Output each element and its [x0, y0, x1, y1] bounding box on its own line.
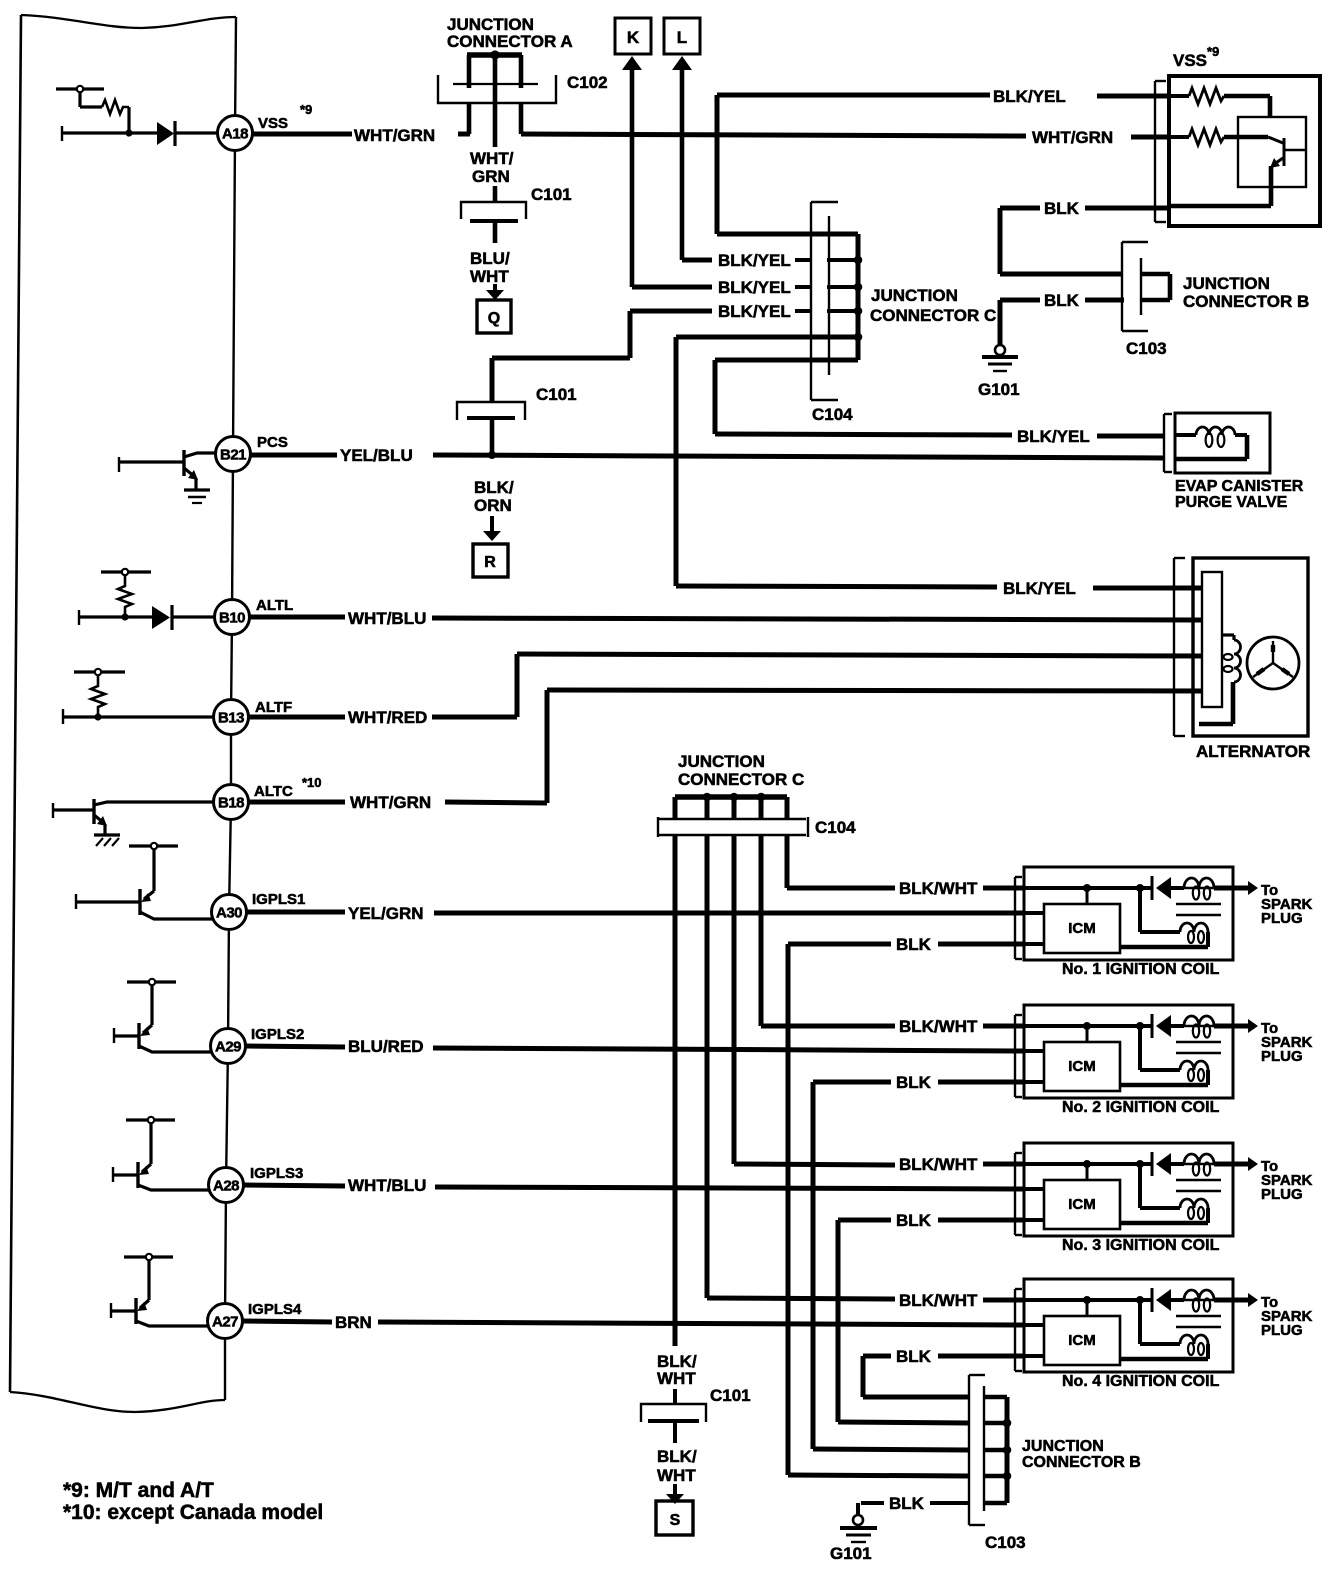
arrow To Spark Plug (No.4) [1233, 1293, 1313, 1339]
VSS label *9 [1173, 44, 1219, 70]
svg-text:G101: G101 [978, 380, 1020, 399]
svg-text:YEL/BLU: YEL/BLU [340, 446, 413, 465]
No.1 coil ground wire stub [1024, 942, 1044, 946]
svg-text:BLK: BLK [896, 935, 932, 954]
wire from C104 pin 5 to No.1 coil [787, 797, 895, 888]
svg-text:BRN: BRN [335, 1313, 372, 1332]
svg-text:WHT: WHT [470, 267, 509, 286]
svg-text:S: S [670, 1512, 681, 1529]
ECM connector pin A28 [209, 1168, 244, 1203]
junction connector C (upper) bracket [811, 202, 838, 400]
wire stub below C101 [493, 223, 498, 243]
ECM connector pin A29 [211, 1029, 246, 1064]
B10 internal pull-up resistor [101, 569, 151, 621]
svg-text:No. 4 IGNITION COIL: No. 4 IGNITION COIL [1062, 1373, 1220, 1390]
No.3 coil internal diode [1152, 1152, 1184, 1176]
junction connector B (lower) busbar [984, 1397, 1011, 1503]
junction connector C (lower) label [678, 752, 804, 789]
wire BLK/YEL from junction connector C to VSS [717, 87, 1170, 234]
svg-text:R: R [484, 554, 496, 571]
svg-text:G101: G101 [830, 1544, 872, 1563]
svg-text:BLK/: BLK/ [657, 1447, 697, 1466]
No.2 ignition coil connector bracket [1015, 1015, 1022, 1097]
svg-text:WHT/RED: WHT/RED [348, 708, 427, 727]
ECM boundary (torn box outline) [10, 15, 236, 1412]
svg-text:BLU/RED: BLU/RED [348, 1037, 424, 1056]
ground G101 (lower) [840, 1515, 877, 1542]
svg-text:BLK: BLK [896, 1347, 932, 1366]
svg-text:C104: C104 [812, 405, 853, 424]
svg-text:WHT/BLU: WHT/BLU [348, 1176, 426, 1195]
svg-text:ICM: ICM [1068, 1332, 1096, 1349]
svg-text:ALTC: ALTC [254, 783, 293, 800]
svg-text:WHT/GRN: WHT/GRN [354, 126, 435, 145]
svg-text:JUNCTION: JUNCTION [1022, 1438, 1104, 1455]
wire BRN from A27 to No.4 coil [242, 1313, 1024, 1332]
ECM connector pin B10 [215, 600, 250, 635]
EVAP purge valve connector bracket [1164, 414, 1172, 472]
svg-text:IGPLS3: IGPLS3 [250, 1165, 303, 1182]
ECM connector pin B21 [216, 437, 251, 472]
wire from C104 pin 2 to No.4 coil [707, 797, 895, 1299]
A30 internal transistor with pull-up (A30 driver) [76, 843, 222, 919]
svg-text:No. 3 IGNITION COIL: No. 3 IGNITION COIL [1062, 1237, 1220, 1254]
wire WHT/GRN from C102 to VSS [521, 128, 1170, 147]
ECM connector pin A18 [218, 116, 253, 151]
svg-text:BLK/WHT: BLK/WHT [899, 879, 978, 898]
ECM connector pin B13 [214, 700, 249, 735]
No.2 coil internal supply wire [1024, 1022, 1180, 1070]
wire from C104 pin 4 to No.2 coil [761, 797, 895, 1026]
wire BLK from No.4 coil to junction connector B [863, 1347, 1024, 1397]
svg-text:ICM: ICM [1068, 1196, 1096, 1213]
arrow into S [666, 1484, 684, 1504]
A27 internal transistor with pull-up (A27 driver) [111, 1254, 222, 1326]
svg-text:VSS: VSS [1173, 51, 1207, 70]
svg-text:*9: *9 [1207, 44, 1219, 59]
svg-text:BLK/WHT: BLK/WHT [899, 1155, 978, 1174]
junction connector A label [447, 15, 573, 51]
No.3 coil ICM module [1044, 1180, 1120, 1229]
alternator connector bracket [1174, 558, 1185, 736]
wire WHT/RED from B13 to alternator [248, 654, 1203, 727]
svg-text:C104: C104 [815, 818, 856, 837]
ECM pin bus wire [225, 17, 236, 1400]
wire WHT/BLU from B10 to alternator [249, 609, 1203, 628]
wire label BLK/WHT (No.3 coil) [899, 1155, 1024, 1174]
VSS internal resistor R1 [1169, 88, 1270, 118]
svg-text:JUNCTION: JUNCTION [678, 752, 765, 771]
No.4 ignition coil box [1024, 1279, 1233, 1372]
A28 internal transistor with pull-up (A28 driver) [113, 1117, 222, 1190]
svg-text:BLK/YEL: BLK/YEL [718, 251, 791, 270]
wire label BLK/WHT (above C101) [657, 1352, 697, 1388]
junction connector C pin 5 wire (to alternator) [676, 333, 862, 342]
svg-text:B18: B18 [218, 795, 244, 812]
wire stub into bottom C101 [673, 1389, 677, 1404]
svg-text:WHT/: WHT/ [470, 149, 514, 168]
arrow To Spark Plug (No.3) [1233, 1157, 1313, 1203]
arrow wire to K [622, 56, 642, 287]
No.3 coil internal supply wire [1024, 1160, 1180, 1208]
wire BLU/RED from A29 to No.2 coil [246, 1037, 1024, 1056]
wire BLK from No.1 coil to junction connector B [788, 935, 1024, 1476]
VSS internal resistor R2 [1169, 129, 1268, 145]
svg-text:BLK/YEL: BLK/YEL [1017, 427, 1090, 446]
destination box Q [477, 300, 511, 333]
B10 internal diode [79, 605, 215, 630]
B18 transistor chassis ground [94, 835, 120, 846]
svg-text:No. 1 IGNITION COIL: No. 1 IGNITION COIL [1062, 961, 1220, 978]
svg-text:BLK: BLK [896, 1211, 932, 1230]
destination box S [656, 1501, 693, 1535]
destination box R [473, 544, 508, 577]
svg-text:WHT: WHT [657, 1466, 696, 1485]
arrow into Q [486, 284, 504, 300]
No.4 coil internal supply wire [1024, 1296, 1180, 1344]
No.2 coil internal diode [1152, 1014, 1184, 1038]
B18 internal transistor (ALTC driver) [53, 799, 215, 835]
svg-text:A30: A30 [216, 905, 242, 922]
svg-text:B21: B21 [220, 447, 246, 464]
svg-text:A29: A29 [215, 1039, 241, 1056]
svg-text:ALTERNATOR: ALTERNATOR [1196, 742, 1310, 761]
No.3 coil trigger wire stub [1024, 1187, 1044, 1191]
svg-text:*10: except Canada model: *10: except Canada model [63, 1501, 323, 1524]
svg-text:PLUG: PLUG [1261, 1186, 1303, 1203]
svg-text:PLUG: PLUG [1261, 1322, 1303, 1339]
No.3 coil ground wire stub [1024, 1218, 1044, 1222]
No.4 ignition coil connector bracket [1015, 1289, 1022, 1371]
svg-text:YEL/GRN: YEL/GRN [348, 904, 424, 923]
svg-text:L: L [677, 28, 687, 47]
wire WHT/GRN from A18 to junction connector A [252, 126, 470, 145]
junction connector B (lower) bracket [969, 1375, 985, 1525]
No.1 coil secondary winding [1184, 878, 1233, 900]
No.3 ignition coil box [1024, 1143, 1233, 1236]
svg-text:ICM: ICM [1068, 1058, 1096, 1075]
connector C102 symbol [438, 75, 556, 103]
svg-text:C102: C102 [567, 73, 608, 92]
svg-text:No. 2 IGNITION COIL: No. 2 IGNITION COIL [1062, 1099, 1220, 1116]
VSS internal transistor [1169, 137, 1306, 206]
svg-text:BLU/: BLU/ [470, 249, 510, 268]
wire label BLK/WHT (below C101) [657, 1447, 697, 1485]
A29 internal transistor with pull-up (A29 driver) [114, 979, 222, 1052]
No.4 coil ICM module [1044, 1316, 1120, 1365]
arrow To Spark Plug (No.2) [1233, 1019, 1313, 1065]
arrow To Spark Plug (No.1) [1233, 881, 1313, 927]
wire WHT/BLU from A28 to No.3 coil [244, 1176, 1024, 1195]
svg-text:BLK/YEL: BLK/YEL [718, 278, 791, 297]
No.4 coil primary winding [1120, 1335, 1208, 1359]
wire stub into C101 [493, 186, 498, 203]
svg-text:Q: Q [488, 310, 500, 327]
B21 transistor ground [184, 490, 210, 503]
junction connector C pin 1 wire (to VSS BLK/YEL) [717, 232, 858, 237]
alternator connector block [1202, 572, 1222, 707]
pin label VSS *9 [258, 102, 312, 132]
svg-text:CONNECTOR B: CONNECTOR B [1022, 1454, 1141, 1471]
No.2 coil ground wire stub [1024, 1080, 1044, 1084]
svg-text:*9: *9 [300, 102, 312, 117]
VSS connector bracket [1155, 81, 1166, 222]
junction connector C (upper) busbar [856, 234, 861, 360]
svg-text:WHT/GRN: WHT/GRN [350, 793, 431, 812]
arrow wire to L [672, 56, 692, 260]
svg-text:VSS: VSS [258, 115, 288, 132]
svg-text:*9: M/T and A/T: *9: M/T and A/T [63, 1479, 214, 1502]
No.3 coil core [1176, 1180, 1221, 1191]
No.3 coil secondary winding [1184, 1154, 1233, 1176]
wire label BLK/ORN [474, 478, 514, 515]
No.4 coil trigger wire stub [1024, 1323, 1044, 1327]
svg-text:C101: C101 [531, 185, 572, 204]
EVAP purge valve label [1175, 478, 1304, 511]
wire label BLK/WHT (No.4 coil) [899, 1291, 1024, 1310]
svg-text:B13: B13 [218, 710, 244, 727]
wire stub below bottom C101 [673, 1423, 677, 1443]
alternator box [1193, 558, 1308, 736]
svg-text:A18: A18 [222, 126, 248, 143]
connector C101 (bottom) [641, 1404, 706, 1422]
wire label BLU/WHT [470, 249, 510, 286]
junction connector C pin 4 wire BLK/YEL from C101 chain [630, 302, 862, 358]
junction connector B (upper) busbar [1141, 274, 1170, 300]
junction connector C (lower) busbar [675, 793, 787, 802]
svg-text:PCS: PCS [257, 434, 288, 451]
junction connector C (upper) label [870, 286, 996, 325]
ECM connector pin A30 [212, 895, 247, 930]
wire label WHT/GRN (C102 to C101) [470, 149, 514, 186]
svg-text:BLK: BLK [896, 1073, 932, 1092]
svg-text:CONNECTOR A: CONNECTOR A [447, 32, 573, 51]
svg-text:ALTL: ALTL [256, 597, 293, 614]
svg-text:BLK: BLK [1044, 199, 1080, 218]
alternator stator (3-phase symbol) [1247, 637, 1299, 689]
B21 internal transistor (PCS driver) [119, 450, 217, 490]
A18 internal diode [62, 121, 218, 146]
svg-text:BLK: BLK [889, 1494, 925, 1513]
wire YEL/GRN from A30 to No.1 coil [246, 904, 1024, 923]
wire BLK from G101 (lower) to junction connector B [858, 1494, 969, 1515]
wire BLK/YEL from junction connector C to EVAP [715, 360, 1164, 446]
ECM connector pin A27 [208, 1304, 243, 1339]
junction connector C pin 6 wire (to EVAP) [715, 358, 858, 363]
EVAP purge valve solenoid coil [1175, 427, 1247, 459]
svg-text:BLK/: BLK/ [474, 478, 514, 497]
No.2 coil ICM module [1044, 1042, 1120, 1091]
wire WHT/GRN from B18 to alternator [248, 690, 1203, 812]
No.3 coil primary winding [1120, 1199, 1208, 1223]
destination box L [664, 18, 700, 54]
wire label BLK/WHT (No.2 coil) [899, 1017, 1024, 1036]
svg-text:ORN: ORN [474, 496, 512, 515]
alternator field winding [1199, 635, 1241, 724]
svg-text:PURGE VALVE: PURGE VALVE [1175, 494, 1288, 511]
wire label BLK/WHT (No.1 coil) [899, 879, 1024, 898]
No.1 coil trigger wire stub [1024, 911, 1044, 915]
junction connector B (upper) label [1183, 274, 1309, 311]
svg-text:BLK/YEL: BLK/YEL [993, 87, 1066, 106]
svg-text:BLK/YEL: BLK/YEL [718, 302, 791, 321]
No.4 coil ground wire stub [1024, 1354, 1044, 1358]
No.4 coil secondary winding [1184, 1290, 1233, 1312]
wire BLK from VSS [1000, 199, 1170, 274]
No.1 ignition coil connector bracket [1015, 877, 1022, 959]
wire YEL/BLU from B21 to EVAP purge valve [250, 446, 1164, 465]
svg-text:A27: A27 [212, 1314, 238, 1331]
VSS internal transistor box [1238, 117, 1306, 187]
junction connector C pin 3 wire BLK/YEL from K [632, 278, 862, 297]
ECM connector pin B18 [214, 785, 249, 820]
wire BLK from G101 to junction connector B [1000, 291, 1124, 345]
No.1 ignition coil box [1024, 867, 1233, 960]
svg-text:C101: C101 [710, 1386, 751, 1405]
No.2 coil secondary winding [1184, 1016, 1233, 1038]
junction connector B (upper) bracket [1122, 242, 1148, 331]
junction connector C pin 2 wire BLK/YEL from L [682, 251, 862, 270]
svg-text:JUNCTION: JUNCTION [1183, 274, 1270, 293]
connector C104 (lower) plate [658, 817, 808, 837]
svg-text:WHT/BLU: WHT/BLU [348, 609, 426, 628]
svg-text:CONNECTOR C: CONNECTOR C [870, 306, 996, 325]
svg-text:GRN: GRN [472, 167, 510, 186]
connector C101 (PCS circuit) [457, 402, 525, 420]
B13 internal pull-up resistor [63, 669, 214, 724]
No.2 coil trigger wire stub [1024, 1049, 1044, 1053]
svg-text:PLUG: PLUG [1261, 1048, 1303, 1065]
No.1 coil core [1176, 904, 1221, 915]
svg-text:C103: C103 [985, 1533, 1026, 1552]
pin label ALTC *10 [254, 775, 322, 800]
svg-text:IGPLS4: IGPLS4 [248, 1301, 302, 1318]
wire BLK from No.2 coil to junction connector B [813, 1073, 1024, 1450]
No.1 coil primary winding [1120, 923, 1208, 947]
wire stub C101 to PCS wire [488, 420, 496, 459]
wire from C104 pin 3 to No.3 coil [734, 797, 895, 1165]
wire from C104 pin 1 to C101 (BLK/WHT chain) [673, 797, 678, 1346]
wire BLK from No.3 coil to junction connector B [838, 1211, 1024, 1423]
wire BLK/YEL from junction connector C to alternator [676, 337, 1203, 598]
No.3 ignition coil connector bracket [1015, 1153, 1022, 1235]
No.2 ignition coil box [1024, 1005, 1233, 1098]
svg-text:ICM: ICM [1068, 920, 1096, 937]
No.2 coil primary winding [1120, 1061, 1208, 1085]
svg-text:K: K [627, 28, 640, 47]
svg-text:A28: A28 [213, 1178, 239, 1195]
EVAP purge valve box [1175, 413, 1270, 473]
wire from junction connector C to C101 (BLK/YEL) [492, 358, 630, 403]
svg-text:BLK/WHT: BLK/WHT [899, 1017, 978, 1036]
svg-text:WHT: WHT [657, 1369, 696, 1388]
junction connector B (lower) label [1022, 1438, 1141, 1471]
svg-text:IGPLS2: IGPLS2 [251, 1026, 304, 1043]
No.2 coil core [1176, 1042, 1221, 1053]
VSS component box [1169, 76, 1320, 226]
svg-text:IGPLS1: IGPLS1 [252, 891, 305, 908]
No.1 coil internal diode [1152, 876, 1184, 900]
connector C101 (WHT/GRN to BLU/WHT) [461, 202, 526, 221]
svg-text:BLK/YEL: BLK/YEL [1003, 579, 1076, 598]
No.4 coil internal diode [1152, 1288, 1184, 1312]
destination box K [615, 18, 651, 54]
wire stub BLK/ORN to R [490, 516, 494, 531]
svg-text:BLK: BLK [1044, 291, 1080, 310]
svg-text:PLUG: PLUG [1261, 910, 1303, 927]
junction connector A busbar [467, 50, 522, 147]
No.4 coil core [1176, 1316, 1221, 1327]
No.1 coil ICM module [1044, 904, 1120, 953]
svg-text:*10: *10 [302, 775, 322, 790]
svg-text:B10: B10 [219, 610, 245, 627]
svg-text:ALTF: ALTF [255, 699, 292, 716]
ground G101 (upper) [982, 345, 1018, 371]
svg-text:C101: C101 [536, 385, 577, 404]
A18 internal pull-up resistor [56, 86, 133, 137]
No.1 coil internal supply wire [1024, 884, 1180, 932]
svg-text:BLK/WHT: BLK/WHT [899, 1291, 978, 1310]
svg-text:C103: C103 [1126, 339, 1167, 358]
svg-text:JUNCTION: JUNCTION [871, 286, 958, 305]
svg-text:CONNECTOR B: CONNECTOR B [1183, 292, 1309, 311]
arrow into R [483, 531, 501, 541]
svg-text:CONNECTOR C: CONNECTOR C [678, 770, 804, 789]
svg-text:WHT/GRN: WHT/GRN [1032, 128, 1113, 147]
svg-text:EVAP CANISTER: EVAP CANISTER [1175, 478, 1304, 495]
